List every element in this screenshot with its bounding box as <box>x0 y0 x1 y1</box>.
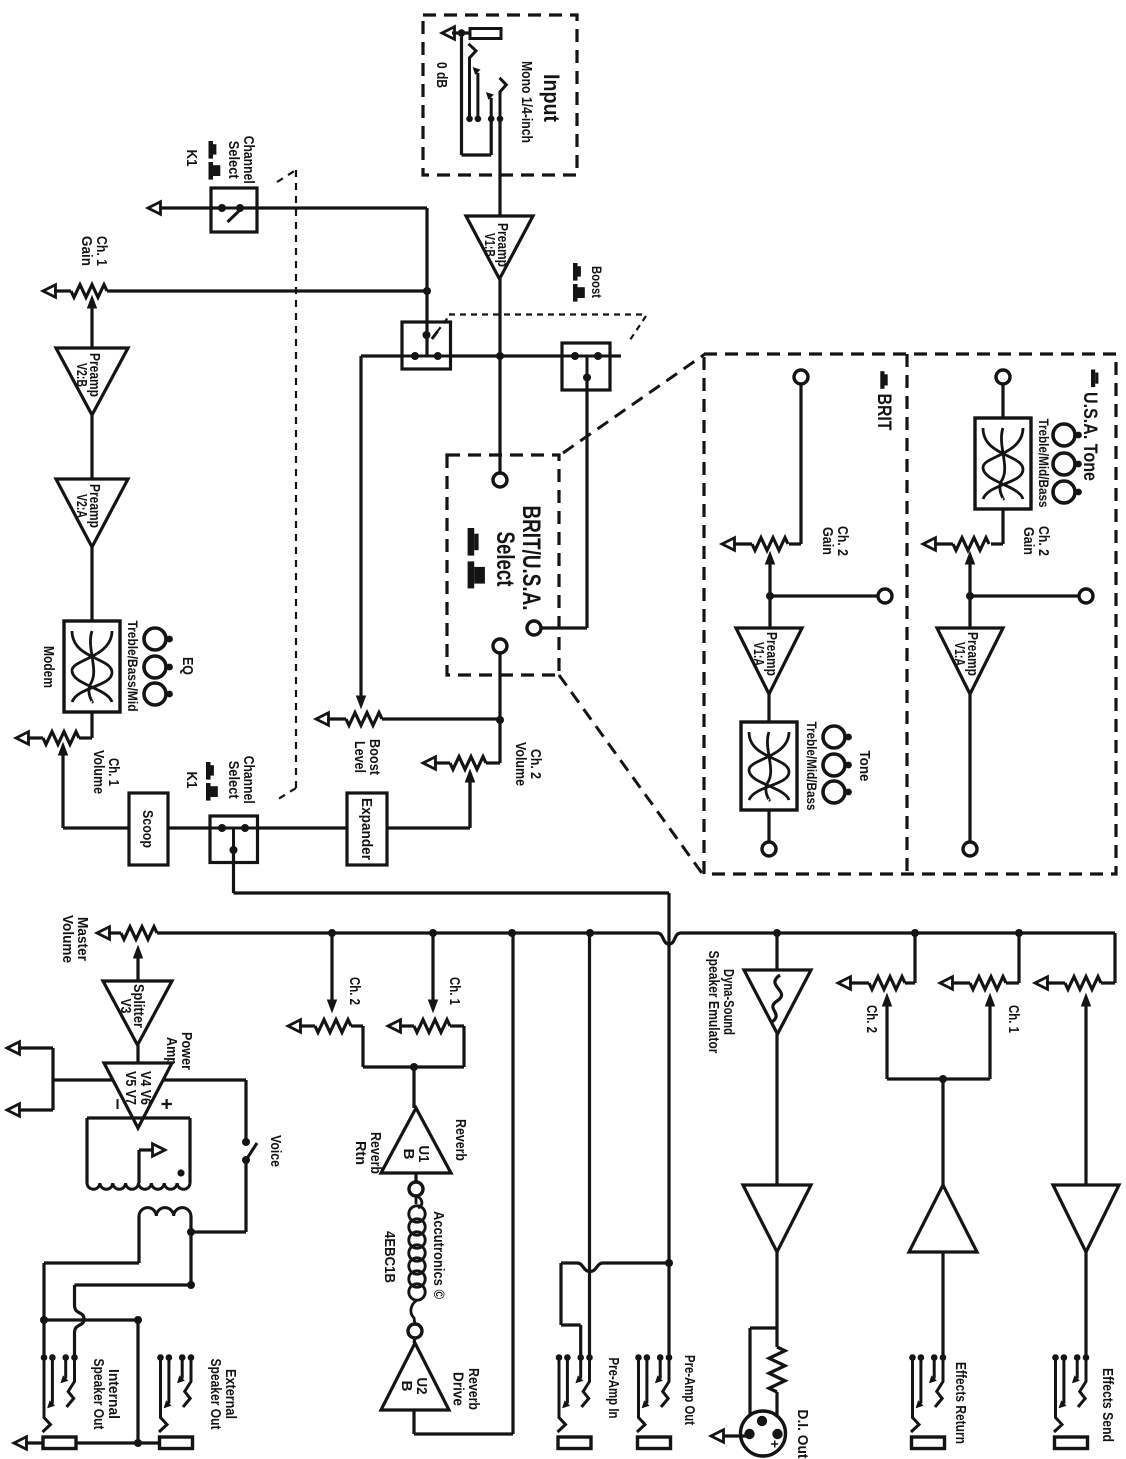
svg-text:Rtn: Rtn <box>352 1141 368 1165</box>
svg-text:Gain: Gain <box>1020 527 1036 555</box>
svg-text:Ch. 1: Ch. 1 <box>446 977 462 1005</box>
svg-text:Gain: Gain <box>78 236 94 266</box>
svg-text:BRIT/U.S.A.: BRIT/U.S.A. <box>517 506 545 611</box>
svg-text:Expander: Expander <box>358 798 374 860</box>
svg-text:D.I. Out: D.I. Out <box>794 1410 810 1459</box>
svg-text:Ch. 2: Ch. 2 <box>834 526 850 556</box>
svg-text:V1:B: V1:B <box>481 233 498 257</box>
svg-text:Accutronics ©: Accutronics © <box>430 1211 446 1299</box>
svg-text:Reverb: Reverb <box>367 1132 383 1174</box>
svg-text:Ch. 2: Ch. 2 <box>527 749 543 779</box>
svg-text:Select: Select <box>225 141 241 179</box>
svg-text:Scoop: Scoop <box>139 810 155 848</box>
svg-text:Dyna-Sound: Dyna-Sound <box>720 969 736 1035</box>
svg-text:Power: Power <box>178 1032 194 1070</box>
svg-text:Treble/Mid/Bass: Treble/Mid/Bass <box>1036 419 1051 508</box>
svg-text:Channel: Channel <box>240 136 256 184</box>
svg-text:Ch. 2: Ch. 2 <box>863 1005 879 1033</box>
svg-text:V2:A: V2:A <box>73 494 90 518</box>
svg-text:Internal: Internal <box>105 1369 121 1419</box>
svg-text:K1: K1 <box>183 150 199 167</box>
svg-text:Ch. 1: Ch. 1 <box>1005 1005 1021 1033</box>
svg-text:Drive: Drive <box>450 1372 466 1406</box>
svg-text:V1:A: V1:A <box>951 642 968 666</box>
svg-text:V3: V3 <box>117 999 134 1014</box>
svg-text:Amp: Amp <box>163 1037 179 1065</box>
svg-text:U.S.A. Tone: U.S.A. Tone <box>1079 392 1100 481</box>
svg-text:4EBC1B: 4EBC1B <box>381 1231 397 1283</box>
svg-text:Reverb: Reverb <box>452 1119 468 1161</box>
svg-text:Pre-Amp Out: Pre-Amp Out <box>681 1355 697 1425</box>
svg-text:Modem: Modem <box>40 646 56 688</box>
svg-text:Treble/Bass/Mid: Treble/Bass/Mid <box>125 621 140 712</box>
svg-text:Ch. 1: Ch. 1 <box>105 758 121 786</box>
svg-text:Treble/Mid/Bass: Treble/Mid/Bass <box>804 722 819 811</box>
svg-text:B: B <box>398 1381 415 1392</box>
svg-text:V1:A: V1:A <box>750 642 767 666</box>
svg-text:Speaker Out: Speaker Out <box>207 1359 223 1430</box>
svg-text:Gain: Gain <box>819 527 835 555</box>
svg-text:Voice: Voice <box>267 1135 283 1167</box>
svg-text:K1: K1 <box>183 772 199 789</box>
svg-text:Select: Select <box>225 761 241 799</box>
svg-text:Ch. 2: Ch. 2 <box>346 977 362 1005</box>
svg-text:Pre-Amp In: Pre-Amp In <box>605 1358 621 1419</box>
svg-text:EQ: EQ <box>179 657 195 675</box>
svg-text:Volume: Volume <box>59 915 75 963</box>
svg-text:+: + <box>767 1440 783 1448</box>
svg-text:Volume: Volume <box>512 742 528 786</box>
svg-text:B: B <box>400 1149 417 1160</box>
svg-text:Speaker Out: Speaker Out <box>90 1359 106 1430</box>
svg-text:Mono 1/4-inch: Mono 1/4-inch <box>518 61 534 143</box>
svg-text:Reverb: Reverb <box>465 1368 481 1410</box>
svg-text:Boost: Boost <box>366 739 382 775</box>
svg-text:+: + <box>155 1098 177 1110</box>
svg-text:Effects Return: Effects Return <box>952 1362 968 1444</box>
svg-text:Input: Input <box>539 74 564 123</box>
svg-text:Volume: Volume <box>90 750 106 794</box>
svg-text:Ch. 2: Ch. 2 <box>1035 526 1051 556</box>
svg-text:–: – <box>107 1098 129 1109</box>
svg-text:Boost: Boost <box>589 266 605 298</box>
svg-text:Level: Level <box>351 741 367 773</box>
svg-text:V2:B: V2:B <box>73 363 90 387</box>
svg-text:0 dB: 0 dB <box>433 62 449 88</box>
svg-text:Master: Master <box>74 917 90 961</box>
svg-text:External: External <box>222 1369 238 1419</box>
svg-text:BRIT: BRIT <box>873 394 894 431</box>
svg-text:Tone: Tone <box>856 751 872 782</box>
svg-text:Channel: Channel <box>240 756 256 804</box>
svg-text:Effects Send: Effects Send <box>1099 1368 1115 1442</box>
svg-text:Ch. 1: Ch. 1 <box>93 236 109 266</box>
svg-text:Select: Select <box>491 532 519 587</box>
svg-text:Speaker Emulator: Speaker Emulator <box>705 951 721 1054</box>
